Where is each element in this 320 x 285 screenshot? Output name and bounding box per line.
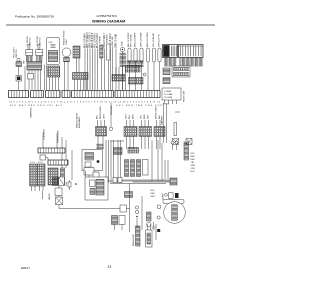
svg-text:RESISTOR: RESISTOR bbox=[184, 90, 186, 102]
main control board connector left bbox=[163, 45, 178, 58]
wire drop 1 bbox=[42, 138, 44, 148]
wire elbow 2 bbox=[46, 158, 49, 161]
defrost thermostat symbols bbox=[171, 141, 178, 150]
vertical label column C bbox=[76, 112, 82, 128]
connector block G3 labels bbox=[156, 106, 162, 119]
bottom cluster hatched column bbox=[136, 226, 141, 246]
main vertical run bbox=[129, 184, 131, 233]
icemaker sub box bbox=[93, 172, 99, 178]
svg-text:ICE: ICE bbox=[49, 42, 53, 44]
wire bbox=[103, 49, 105, 91]
ice maker module box bbox=[47, 38, 60, 65]
svg-text:GRN: GRN bbox=[104, 114, 106, 119]
compressor ground bbox=[152, 222, 156, 229]
grommet circle bbox=[120, 47, 125, 90]
wire bbox=[84, 49, 86, 91]
svg-text:BRN-16 COND: BRN-16 COND bbox=[147, 32, 149, 47]
center wire bundle verticals bbox=[106, 140, 121, 183]
connector block G1 labels bbox=[126, 114, 135, 119]
connector row strip 2 bbox=[31, 91, 44, 98]
svg-text:10 OHM: 10 OHM bbox=[164, 94, 172, 96]
dash mark bbox=[175, 111, 180, 113]
svg-text:BLK: BLK bbox=[151, 190, 155, 192]
svg-text:BLK: BLK bbox=[159, 114, 161, 119]
wire bbox=[34, 70, 36, 90]
splice box with contact bbox=[16, 76, 22, 82]
compressor top plate bbox=[163, 199, 184, 203]
connector block G2 labels bbox=[141, 114, 150, 119]
connector block J4 bbox=[112, 75, 125, 82]
svg-text:GRN-YEL: GRN-YEL bbox=[112, 35, 114, 46]
svg-text:Publication No. 5995580718: Publication No. 5995580718 bbox=[15, 15, 54, 19]
right small block B bbox=[163, 78, 170, 84]
connector row strip 1 bbox=[9, 91, 29, 98]
connector block F1 labels bbox=[97, 106, 106, 119]
junction dot bbox=[75, 183, 77, 185]
hatch column under grommet bbox=[120, 53, 127, 68]
legend text rows right bbox=[191, 153, 196, 173]
junction connector pair bbox=[113, 178, 117, 183]
relay tall rect 2 bbox=[131, 160, 135, 177]
wire bbox=[115, 49, 117, 75]
capacitor outline bbox=[143, 160, 149, 176]
ring terminal bbox=[143, 73, 146, 76]
vertical wire r1 bbox=[151, 140, 153, 181]
svg-text:HEATER: HEATER bbox=[106, 34, 109, 43]
horizontal bus wire bbox=[106, 180, 170, 182]
tiny label column bbox=[151, 190, 156, 198]
wire bbox=[18, 67, 20, 76]
resistor box pins bbox=[165, 100, 177, 104]
lower-left wire down bbox=[42, 191, 44, 199]
svg-text:HARNESS: HARNESS bbox=[30, 107, 33, 118]
small component X2 bbox=[186, 139, 192, 145]
terminal labels above ovals bbox=[128, 32, 161, 47]
wire bundle from board right bbox=[180, 58, 204, 67]
svg-text:23: 23 bbox=[108, 265, 112, 269]
svg-text:WHT: WHT bbox=[151, 196, 156, 198]
compressor pin circle B bbox=[157, 216, 160, 219]
water filter sensor bbox=[16, 58, 22, 66]
lamp L1 bbox=[62, 48, 71, 62]
svg-text:BLK WHT RED ORG YEL BLU: BLK WHT RED ORG YEL BLU bbox=[10, 105, 62, 107]
wire bbox=[24, 66, 26, 90]
wire stem bbox=[58, 186, 60, 189]
svg-text:ORG: ORG bbox=[126, 114, 128, 119]
wire drop 3 bbox=[61, 137, 63, 168]
svg-text:DISPENSER: DISPENSER bbox=[58, 130, 60, 143]
bottom heater body bbox=[146, 230, 153, 247]
svg-text:GND: GND bbox=[122, 41, 124, 46]
relay tall rect 3 bbox=[137, 160, 141, 177]
start device circle bbox=[165, 193, 168, 196]
small box under icemaker bbox=[84, 168, 94, 176]
connector row strip 4 bbox=[62, 91, 70, 98]
icemaker wires down bbox=[86, 171, 100, 182]
wire bbox=[18, 81, 20, 90]
small relay box bbox=[28, 74, 34, 80]
dark module bbox=[175, 193, 179, 198]
connector block J2 bbox=[48, 66, 60, 90]
svg-text:ORG-16 EVAP: ORG-16 EVAP bbox=[140, 32, 143, 47]
svg-text:GRY-16 HTR: GRY-16 HTR bbox=[159, 34, 161, 47]
compressor pin circle A bbox=[157, 205, 161, 209]
wire from ice maker bbox=[44, 65, 46, 91]
small component X1 bbox=[173, 139, 179, 145]
svg-text:5 OHM: 5 OHM bbox=[164, 91, 171, 93]
auger motor box bbox=[85, 177, 108, 200]
svg-text:TAN-18 SEN 7: TAN-18 SEN 7 bbox=[103, 32, 106, 48]
wire bbox=[37, 70, 39, 90]
tiny labels above grids bbox=[30, 162, 43, 164]
svg-text:SWITCH: SWITCH bbox=[16, 49, 18, 58]
wire bbox=[31, 70, 33, 90]
connector block G1 bbox=[124, 120, 137, 149]
bottom dark mark bbox=[157, 229, 160, 232]
header strip H1 bbox=[38, 148, 65, 153]
svg-text:SW: SW bbox=[24, 61, 26, 64]
svg-text:WIRING DIAGRAM: WIRING DIAGRAM bbox=[92, 19, 125, 23]
wire bbox=[94, 49, 96, 91]
narrow column P4 bbox=[61, 168, 65, 185]
connector block F1 bbox=[96, 120, 107, 149]
resistor network box bbox=[162, 88, 181, 100]
harness connector hatched bbox=[27, 62, 42, 71]
wire from ice maker bbox=[46, 65, 48, 91]
terminal oval T4 bbox=[146, 48, 149, 62]
svg-text:WHT: WHT bbox=[191, 156, 196, 158]
wire drop from row bbox=[56, 133, 58, 137]
junction connector pair b bbox=[118, 178, 122, 183]
hatch band under terminals bbox=[127, 60, 144, 68]
lower-left block 3 bbox=[59, 177, 64, 186]
connector block J6 bbox=[129, 78, 144, 85]
connector row strip 5 long bbox=[72, 91, 114, 98]
connector block J3 bbox=[73, 58, 89, 90]
lamp wires bbox=[64, 62, 66, 90]
door switch S2 bbox=[36, 45, 43, 62]
wire bbox=[112, 47, 114, 91]
right vertical wires low bbox=[165, 160, 168, 179]
multi-pin connector P3 bbox=[48, 168, 58, 185]
svg-text:BLK: BLK bbox=[97, 114, 99, 119]
svg-text:GRN-18 GND: GRN-18 GND bbox=[116, 33, 118, 48]
damper motor slim rect bbox=[174, 123, 177, 136]
door switch S1 bbox=[26, 45, 33, 62]
svg-text:BLU: BLU bbox=[129, 114, 131, 119]
svg-text:BLU: BLU bbox=[191, 171, 195, 173]
terminal oval T6 bbox=[158, 48, 161, 62]
svg-text:THERM: THERM bbox=[100, 36, 102, 44]
multi-pin connector P2 bbox=[38, 164, 46, 191]
wires from terminals down bbox=[130, 62, 160, 90]
hatch stub above icemaker bbox=[97, 144, 104, 150]
lower-left block 2 bbox=[53, 177, 59, 186]
svg-text:WHT-16 NEU: WHT-16 NEU bbox=[156, 106, 158, 119]
svg-text:YEL-16 AUGR: YEL-16 AUGR bbox=[152, 32, 155, 47]
header strip H2 bbox=[48, 160, 68, 165]
wire bbox=[97, 49, 99, 91]
svg-text:WHT-16 NEU: WHT-16 NEU bbox=[100, 106, 102, 119]
connector block J5 bbox=[126, 66, 141, 73]
right wires descending bbox=[164, 103, 167, 143]
start relay column bbox=[142, 196, 151, 230]
motor circles bbox=[135, 206, 138, 228]
wire bbox=[92, 49, 94, 91]
svg-text:GRY: GRY bbox=[148, 114, 150, 119]
svg-text:RED-16 DEFR: RED-16 DEFR bbox=[135, 32, 137, 47]
svg-text:BRN: BRN bbox=[133, 114, 135, 119]
svg-text:LFHB2751TF0: LFHB2751TF0 bbox=[97, 14, 118, 18]
svg-text:COMP: COMP bbox=[163, 193, 165, 200]
fan motor cluster bbox=[112, 216, 126, 231]
wire drop from row b bbox=[42, 133, 44, 138]
connector block J10 bbox=[73, 46, 80, 58]
svg-text:WHT-16 NEU: WHT-16 NEU bbox=[131, 33, 133, 47]
run hatched block bbox=[125, 192, 133, 198]
right label column bbox=[163, 193, 165, 200]
wire drop 2 bbox=[56, 137, 58, 148]
wires mid bundle down bbox=[116, 67, 126, 90]
wire bbox=[110, 49, 112, 91]
connector row small bbox=[128, 148, 139, 154]
multi-pin connector P1 bbox=[30, 164, 38, 191]
compressor circle bbox=[164, 202, 186, 224]
right small block A bbox=[163, 68, 170, 75]
long bottom feed wire bbox=[59, 205, 130, 209]
svg-text:ORG: ORG bbox=[191, 168, 196, 170]
hatched block center bbox=[114, 148, 123, 155]
relay tall rect 1 bbox=[125, 160, 129, 177]
wire bbox=[87, 49, 89, 91]
valve upper box bbox=[55, 188, 62, 196]
left feed wire bbox=[71, 150, 73, 180]
run capacitor small rect bbox=[169, 193, 174, 199]
wire right segment bbox=[133, 181, 171, 183]
connector row strip 3 bbox=[46, 91, 61, 98]
vertical wire r3 bbox=[161, 143, 163, 181]
defrost heater tall rect bbox=[184, 142, 189, 160]
wire labels bundle top center bbox=[85, 31, 113, 48]
horizontal bus wire 2 bbox=[110, 183, 166, 185]
svg-text:RED: RED bbox=[144, 114, 146, 119]
inline component thermistor RT1 bbox=[100, 36, 104, 90]
connector block G3 bbox=[154, 120, 165, 149]
inline component heater H1 bbox=[106, 34, 111, 90]
connector block G2 bbox=[139, 120, 152, 149]
terminal oval T1 bbox=[128, 48, 131, 62]
horizontal top wires to compressor area bbox=[122, 179, 170, 181]
vertical wire r2 bbox=[157, 140, 159, 181]
terminal oval T5 bbox=[152, 48, 155, 62]
svg-text:RED: RED bbox=[151, 193, 156, 195]
header rule bbox=[6, 24, 215, 26]
wire stem 2 bbox=[58, 196, 60, 198]
wire bbox=[40, 70, 42, 90]
wire bbox=[89, 49, 91, 91]
svg-text:LIGHT: LIGHT bbox=[66, 38, 68, 45]
small box under strip bbox=[40, 155, 46, 160]
horizontal wire to left bbox=[111, 140, 125, 142]
svg-text:E8417: E8417 bbox=[21, 266, 30, 270]
small component T bbox=[68, 180, 71, 190]
svg-text:VALVE: VALVE bbox=[48, 193, 51, 200]
svg-text:ASSEMBLY: ASSEMBLY bbox=[78, 116, 81, 128]
terminal oval T3 bbox=[140, 48, 143, 62]
connector row strip 6 long bbox=[115, 91, 160, 98]
wire bbox=[28, 70, 30, 90]
main control board connector right bbox=[179, 45, 204, 58]
bottom heater pins bbox=[148, 224, 151, 230]
svg-text:15 OHM: 15 OHM bbox=[164, 97, 172, 99]
wire drop 4 bbox=[65, 140, 67, 168]
wire with ring bbox=[109, 103, 112, 131]
svg-text:DRAIN HTR: DRAIN HTR bbox=[132, 234, 135, 246]
svg-text:BLK: BLK bbox=[191, 153, 195, 155]
water valve coil box bbox=[56, 197, 63, 205]
svg-text:RED: RED bbox=[191, 159, 196, 161]
terminal oval T2 bbox=[134, 48, 137, 62]
overload relay block bbox=[170, 178, 177, 185]
run small box bbox=[120, 205, 127, 212]
svg-text:GRN: GRN bbox=[191, 165, 196, 167]
svg-text:J1 1 2 3 4 5 J2 1 2 3 4 J3 1 3: J1 1 2 3 4 5 J2 1 2 3 4 J3 1 3 5 7 J4 2 … bbox=[9, 102, 161, 104]
bottom wire right bbox=[155, 224, 157, 240]
right connector strip C bbox=[172, 66, 190, 77]
wire bundle from board left bbox=[164, 58, 177, 67]
icemaker outline box bbox=[82, 150, 103, 171]
svg-text:GROUND: GROUND bbox=[111, 105, 113, 115]
